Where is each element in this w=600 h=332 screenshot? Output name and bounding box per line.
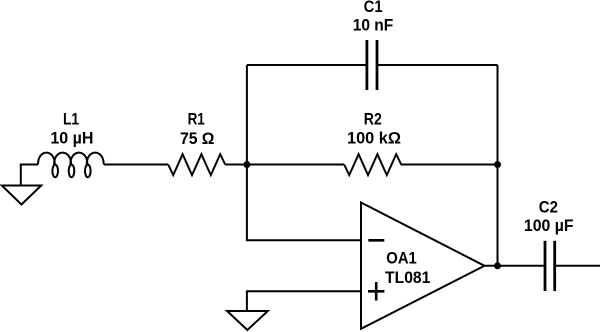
label C2 xyxy=(524,199,574,236)
wire C2 to right edge xyxy=(555,265,600,267)
svg-text:100 µF: 100 µF xyxy=(524,217,574,235)
svg-text:C1: C1 xyxy=(364,0,383,16)
op-amp OA1 xyxy=(361,203,485,329)
svg-text:10 nF: 10 nF xyxy=(353,17,394,35)
resistor R1 xyxy=(168,154,225,175)
wire R2 to node B xyxy=(401,164,498,166)
svg-text:L1: L1 xyxy=(63,111,79,129)
svg-text:10 µH: 10 µH xyxy=(50,129,93,147)
wire L1 to R1 xyxy=(104,164,168,166)
capacitor C2 xyxy=(545,241,555,291)
wire node A to R2 xyxy=(247,164,344,166)
label C1 xyxy=(353,0,394,34)
wire non-inverting input to ground stem xyxy=(247,291,361,311)
svg-text:TL081: TL081 xyxy=(385,269,430,287)
wire op-amp output to C2 xyxy=(485,265,546,267)
output node junction dot xyxy=(494,262,501,269)
wire node A down to inverting input xyxy=(247,165,361,241)
wire C1 rail left segment xyxy=(247,64,367,66)
svg-text:OA1: OA1 xyxy=(386,249,417,267)
svg-text:C2: C2 xyxy=(539,199,558,217)
label OA1 xyxy=(385,249,430,287)
resistor R2 xyxy=(344,154,401,175)
node A junction dot xyxy=(243,161,250,168)
ground (input, left) xyxy=(2,165,41,205)
label R2 xyxy=(347,111,401,148)
svg-text:100 kΩ: 100 kΩ xyxy=(347,130,401,148)
wire ground to L1 xyxy=(20,164,38,166)
wire R1 to node A xyxy=(225,164,247,166)
wire node B down to output xyxy=(497,65,499,266)
label R1 xyxy=(180,110,215,147)
wire C1 rail right segment xyxy=(377,64,498,66)
svg-text:R2: R2 xyxy=(364,111,382,129)
node B junction dot xyxy=(494,161,501,168)
svg-text:75 Ω: 75 Ω xyxy=(180,130,215,148)
capacitor C1 xyxy=(367,40,377,90)
wire node A up to C1 rail xyxy=(246,65,248,165)
svg-text:R1: R1 xyxy=(188,110,205,128)
label L1 xyxy=(50,111,93,148)
ground (non-inverting input) xyxy=(227,311,268,330)
inductor L1 xyxy=(38,153,104,165)
